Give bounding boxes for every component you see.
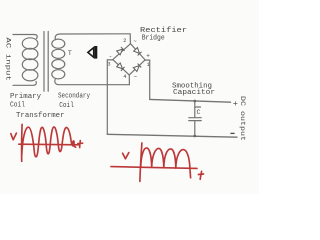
diamond edge node3-node4 [113,60,129,75]
red label v (input wave) [11,133,17,140]
red output wave t label [198,171,203,179]
junction dot at capacitor top [193,100,196,103]
diode D3 bottom-left edge pointing to node4 [117,63,125,71]
red output rectified humps [141,148,191,178]
red input sine wave [22,127,76,157]
junction dot at capacitor bottom [193,135,196,138]
svg-text:T: T [68,50,72,57]
diamond edge node2-node1 [131,44,146,60]
svg-text:Primary: Primary [10,93,41,101]
transformer core line 1 [43,32,45,92]
svg-text:3: 3 [107,61,110,68]
svg-text:2: 2 [123,37,126,44]
red input wave horizontal axis [19,143,79,146]
wire node3 to negative rail [106,60,108,134]
label minus DC output [230,132,234,134]
svg-text:+: + [233,99,238,109]
capacitor C top plate [189,117,201,119]
wire node1 down to positive rail [149,60,151,99]
svg-text:DC output: DC output [239,96,246,141]
red output wave horizontal axis [111,167,197,169]
red input wave vertical axis [21,124,23,161]
svg-text:Rectifier: Rectifier [140,27,187,35]
wire secondary top lead to bridge node 2 [55,34,130,44]
svg-text:Coil: Coil [10,101,25,109]
svg-text:Transformer: Transformer [16,112,65,120]
bold cursor symbol left of bridge [88,46,97,59]
svg-text:-: - [109,53,113,60]
svg-text:C: C [197,109,201,116]
diamond edge node4-node1 [129,60,145,75]
capacitor C top stub [194,101,196,117]
node 3 tick [107,59,113,61]
svg-text:AC input: AC input [3,37,11,81]
capacitor C bottom plate [189,120,201,122]
svg-text:+: + [146,52,150,59]
svg-text:Coil: Coil [59,102,74,110]
capacitor label tick [195,106,201,108]
wire primary top lead [13,35,37,39]
node 1 tick [145,59,150,61]
negative rail wire [107,134,237,137]
diode D1 top-left edge pointing to node2 [117,47,125,55]
svg-text:Secondary: Secondary [58,93,90,101]
red label v (output wave) [123,153,129,159]
red output wave vertical axis [140,143,142,181]
diode D2 top-right edge pointing to node1 [134,47,142,55]
rectifier bridge diamond edge node3-node2 [113,44,131,60]
diodes of bridge [117,47,142,72]
svg-text:Capacitor: Capacitor [173,89,215,97]
capacitor C bottom stub [194,121,196,136]
primary coil P loops [22,38,38,49]
wire secondary bottom lead to bridge node 4 [55,75,130,84]
diode D4 bottom-right edge pointing to node1 [133,64,141,72]
transformer core line 2 [47,32,49,92]
red hand-drawn annotations [11,124,204,181]
red input wave t label [78,141,83,148]
wire primary bottom lead [13,82,36,86]
secondary coil S loops [52,39,65,48]
svg-text:Bridge: Bridge [142,35,165,43]
positive rail wire [150,99,231,102]
